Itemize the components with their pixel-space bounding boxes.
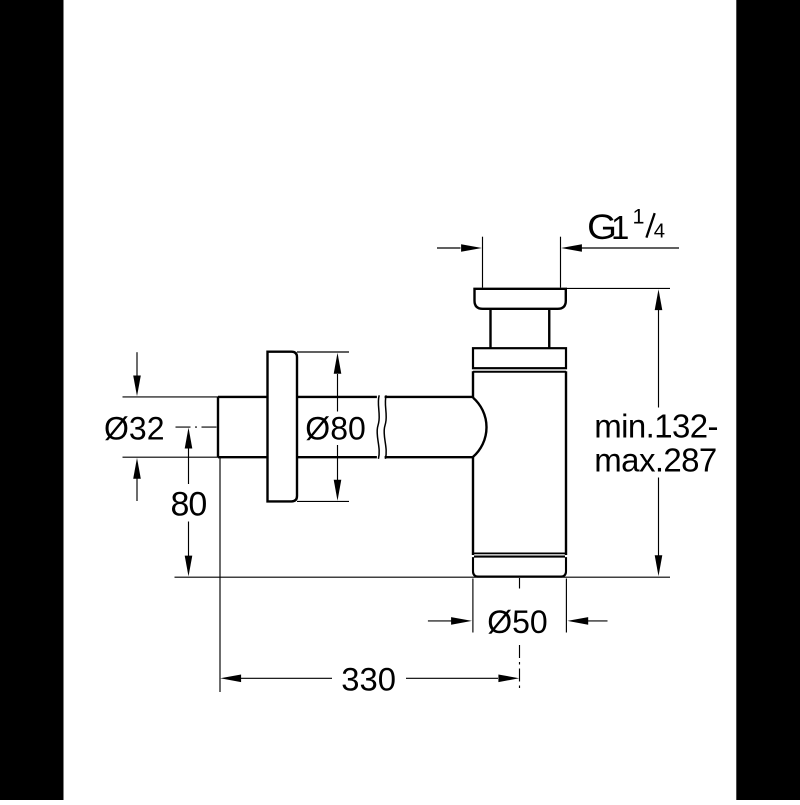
pipe bottom edge [218, 456, 473, 458]
dia80 arrowhead up [334, 353, 342, 374]
svg-text:80: 80 [171, 485, 207, 523]
minmax dim line upper [658, 310, 660, 408]
dia32 arrowhead down [133, 376, 141, 397]
dia80 ext bottom [297, 500, 349, 502]
break wavy right [384, 395, 386, 459]
svg-text:max.287: max.287 [594, 441, 716, 478]
dia32 ext top [123, 396, 219, 398]
dia80 dim line lower [337, 445, 339, 480]
G ext right [560, 237, 562, 288]
minmax arrowhead down [655, 555, 663, 576]
body left wall upper [472, 371, 474, 397]
pipe end cap [217, 397, 219, 457]
minmax arrowhead up [655, 289, 663, 310]
dia50 arrowhead right [451, 617, 472, 625]
seam line [473, 552, 566, 554]
G arrowhead left-side [461, 244, 482, 252]
330 arrowhead left [220, 675, 241, 683]
bottom reference line [175, 576, 671, 578]
svg-text:min.132-: min.132- [594, 407, 718, 444]
G ext left [482, 237, 484, 288]
top flange [475, 289, 566, 309]
svg-text:Ø80: Ø80 [305, 410, 365, 446]
minmax ext top [566, 287, 670, 289]
svg-text:330: 330 [341, 660, 396, 697]
dia80 ext top [297, 351, 349, 353]
svg-text:1: 1 [633, 205, 645, 229]
junction arc [473, 398, 487, 457]
330 arrowhead right [498, 675, 519, 683]
right black bar [736, 0, 800, 800]
80 arrowhead down [185, 556, 193, 577]
G arrowhead right-side [561, 244, 582, 252]
dia50 ext right [565, 579, 567, 633]
80 dim line upper [188, 449, 190, 485]
neck left [489, 309, 491, 349]
svg-text:1: 1 [611, 209, 629, 246]
dia32 arrowhead up [133, 458, 141, 479]
left black bar [0, 0, 64, 800]
break symbol wavy lines [377, 395, 386, 459]
G dim line left [437, 247, 461, 249]
body right wall [565, 371, 567, 555]
neck right [548, 309, 550, 349]
dia50 ext left [472, 579, 474, 633]
330 dim line left [241, 677, 333, 679]
break wavy left [377, 395, 379, 459]
80 dim line lower [188, 522, 190, 557]
body centerline lower segment [519, 645, 521, 692]
bottom cap [473, 557, 566, 577]
collar [473, 348, 566, 368]
svg-text:4: 4 [654, 221, 665, 243]
body left wall lower [472, 457, 474, 555]
dia80 arrowhead down [334, 480, 342, 501]
dia80 dim line upper [337, 374, 339, 412]
body centerline upper segment [519, 578, 521, 589]
fraction slash [646, 213, 654, 238]
80 arrowhead up [185, 428, 193, 449]
330 dim line right [406, 677, 498, 679]
pipe top edge [218, 396, 473, 398]
dia32 ext bottom [123, 456, 219, 458]
330 ext line [219, 458, 221, 692]
svg-text:Ø32: Ø32 [104, 410, 164, 446]
body top line [473, 371, 566, 373]
svg-text:Ø50: Ø50 [487, 604, 547, 640]
pipe centerline [176, 426, 219, 428]
dia50 right arrow line [588, 620, 608, 622]
escutcheon flange [268, 352, 298, 502]
minmax dim line lower [658, 478, 660, 557]
dia50 left arrow line [428, 620, 452, 622]
G dim line right [582, 247, 680, 249]
dia32 arrow line upper [136, 352, 138, 376]
dia32 arrow line lower [136, 478, 138, 501]
dia50 arrowhead left [567, 617, 588, 625]
